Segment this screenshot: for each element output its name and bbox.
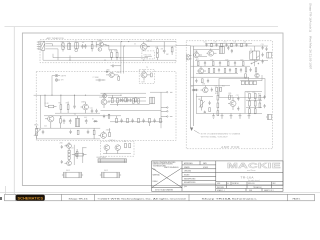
earphone jack J2 pin 2 <box>55 79 60 82</box>
title block small texts <box>153 162 276 192</box>
jack labels <box>61 74 66 81</box>
capacitor C32 <box>95 109 97 113</box>
transistor TR1 <box>96 42 106 52</box>
wire bias right 2 <box>82 147 84 163</box>
svg-text:0.05: 0.05 <box>84 117 87 119</box>
svg-text:2SB: 2SB <box>195 51 198 53</box>
wire AVC bus <box>53 57 148 59</box>
svg-text:0.01: 0.01 <box>224 42 227 44</box>
svg-text:2SB: 2SB <box>202 84 205 86</box>
resistor column R24 <box>217 100 219 108</box>
resistor R41 <box>60 95 62 113</box>
resistor R56 <box>255 68 257 72</box>
svg-text:0.02: 0.02 <box>44 125 47 127</box>
wire row3b <box>101 92 147 94</box>
capacitor C43 <box>250 68 252 72</box>
ferrite rod antenna <box>98 159 127 163</box>
svg-text:D1: D1 <box>92 119 94 121</box>
wire row5 <box>110 121 163 123</box>
svg-text:2SB75: 2SB75 <box>81 102 86 104</box>
driver transformer dashed sub-box <box>139 70 154 84</box>
top row resistor R13 <box>211 43 213 47</box>
wire y52 <box>199 56 207 58</box>
resistor R44 <box>111 95 113 103</box>
wire takeoff top <box>150 91 166 93</box>
svg-text:4.7K: 4.7K <box>214 42 217 44</box>
svg-text:T5: T5 <box>250 49 252 51</box>
wire amp x196 <box>195 94 197 114</box>
oscillator coil dashed sub-box <box>142 51 155 59</box>
wire bias stub <box>83 147 87 149</box>
node dots on buses <box>69 41 144 61</box>
resistor R26 <box>229 95 231 99</box>
top row capacitor C12 <box>215 43 217 45</box>
wire col link 2 <box>246 107 262 109</box>
resistor R46 <box>132 99 134 104</box>
resistor R3 <box>156 47 158 53</box>
svg-text:R17: R17 <box>196 59 199 61</box>
variable capacitor C1 <box>61 42 65 52</box>
resistor R63 <box>135 98 137 102</box>
wire bias right <box>73 145 75 165</box>
capacitor C50 <box>120 98 122 102</box>
wire drop <box>69 56 71 61</box>
left box cross <box>152 168 182 188</box>
node dot <box>44 95 121 96</box>
resistor R47 <box>138 99 140 104</box>
svg-text:R23: R23 <box>215 93 218 95</box>
capacitor C36 <box>126 98 128 102</box>
wire strip feed <box>248 77 250 81</box>
bias pot VR2 <box>199 97 205 111</box>
wire bus E <box>36 127 100 129</box>
capacitor C56 <box>264 104 266 108</box>
resistor bank col4 R32 <box>254 106 256 114</box>
wire in output box <box>103 153 131 155</box>
speaker jack J4 <box>266 115 272 120</box>
audio transistor TR8 <box>99 131 107 138</box>
margin note text <box>309 3 313 69</box>
jack block right <box>267 52 272 58</box>
IF amp transistor TR16 <box>81 102 89 114</box>
svg-text:UM-3: UM-3 <box>104 170 108 172</box>
svg-text:47K: 47K <box>161 49 164 51</box>
svg-text:FILE: FILE <box>249 190 252 192</box>
wire J1 lead 4 <box>45 49 58 60</box>
wire takeoff bus <box>160 92 162 128</box>
capacitor C19 <box>262 46 264 50</box>
wire interstage <box>105 45 117 50</box>
capacitor C21 <box>211 88 213 92</box>
wire y49 <box>193 49 219 51</box>
connector fork F3 <box>161 116 172 117</box>
output transformer T5 <box>250 51 260 60</box>
svg-text:2SB: 2SB <box>60 143 63 145</box>
svg-text:C21: C21 <box>215 85 218 87</box>
mid row capacitor C17 <box>219 61 221 66</box>
wire left column <box>40 95 42 128</box>
amp top bus 2 <box>205 42 252 44</box>
top row capacitor C11 <box>205 43 207 45</box>
resistor R53 <box>171 46 173 55</box>
ground G3 <box>230 113 233 118</box>
interstage transformer T4 <box>75 116 79 127</box>
svg-text:R11: R11 <box>66 145 69 147</box>
capacitor C23 <box>237 107 239 111</box>
svg-text:Sharp TR-16: Sharp TR-16 <box>69 197 89 200</box>
svg-text:R7: R7 <box>66 103 68 105</box>
wire transformer bottom <box>254 60 256 67</box>
svg-text:REV: REV <box>273 183 276 185</box>
svg-text:T3: T3 <box>146 67 148 69</box>
svg-text:T4: T4 <box>74 114 76 116</box>
svg-text:SIZE: SIZE <box>217 183 220 185</box>
coupling capacitor C6 between sections <box>111 65 121 68</box>
svg-text:.XX ±: .XX ± <box>153 169 157 171</box>
wire tuner out to amp box <box>176 45 191 47</box>
svg-text:10K: 10K <box>234 42 237 44</box>
resistor R48 <box>116 116 118 123</box>
capacitor C51 <box>130 98 132 102</box>
resistor bank col5 R34 <box>259 100 261 108</box>
capacitor C31 <box>91 109 93 113</box>
svg-text:1N60: 1N60 <box>106 70 110 72</box>
resistor R6 beside TR5 <box>118 75 120 80</box>
capacitor C28 <box>240 68 242 72</box>
svg-text:R33: R33 <box>258 93 261 95</box>
capacitor C3 <box>84 44 87 49</box>
resistor bank col4 R30 <box>254 94 256 99</box>
wire J1 lead 3 <box>45 44 52 46</box>
svg-text:T1: T1 <box>67 42 69 44</box>
svg-text:CV1: CV1 <box>61 41 64 43</box>
IF-audio section dashed box <box>36 72 176 141</box>
svg-text:4/16/08: 4/16/08 <box>203 167 208 169</box>
wire row3 <box>108 96 146 98</box>
switch S1 <box>251 61 259 64</box>
svg-text:C5: C5 <box>134 44 136 46</box>
wire audio bus D <box>34 94 121 96</box>
resistor R62 <box>125 98 127 102</box>
wire row4 <box>110 104 150 106</box>
capacitor C44 <box>262 59 264 63</box>
svg-text:VR2: VR2 <box>198 99 201 101</box>
capacitor C53 <box>61 145 63 149</box>
svg-text:D4: D4 <box>191 86 193 88</box>
resistor column R25 <box>217 108 219 116</box>
capacitor C55 <box>264 95 266 99</box>
svg-text:1K: 1K <box>119 58 121 60</box>
top row capacitor C13 <box>225 43 227 45</box>
diode pair D4 <box>192 89 199 91</box>
svg-text:CHECKED: CHECKED <box>184 171 191 173</box>
svg-text:ANT. TUNER PCB: ANT. TUNER PCB <box>47 37 65 40</box>
svg-text:R9: R9 <box>124 141 126 143</box>
svg-text:TR-16A: TR-16A <box>241 176 255 180</box>
capacitor C27 <box>229 68 231 72</box>
connector fork F0 <box>167 92 173 93</box>
mid row resistor R17 <box>197 62 199 66</box>
top row resistor R15 <box>231 43 233 47</box>
capacitor C49 <box>42 130 44 134</box>
resistor R45 <box>117 98 119 106</box>
capacitor C26 <box>218 68 220 72</box>
driver transistor TR19 <box>197 66 206 74</box>
resistor bank col3 R27 <box>249 94 251 99</box>
capacitor C30 <box>73 95 75 109</box>
capacitor C37 <box>120 118 122 122</box>
svg-text:Sharp TR16A Schematics: Sharp TR16A Schematics <box>202 197 259 200</box>
svg-text:and Dean: and Dean <box>247 170 256 172</box>
resistor R22 <box>220 87 222 91</box>
ground G5 <box>248 113 251 118</box>
coil L2 <box>150 97 155 104</box>
bias transistor TR12 <box>65 159 72 165</box>
note text <box>201 133 241 139</box>
svg-text:2SA101: 2SA101 <box>146 39 152 42</box>
antenna connector J1 <box>37 41 45 50</box>
ground G4 <box>239 113 242 118</box>
svg-text:FINISH: FINISH <box>153 181 158 183</box>
resistor R57 <box>93 128 95 139</box>
svg-text:R30: R30 <box>253 92 256 94</box>
capacitor C25 <box>231 49 233 53</box>
top row capacitor C15 <box>245 43 247 45</box>
svg-text:R5 2K: R5 2K <box>45 103 49 105</box>
svg-text:2SB75: 2SB75 <box>99 97 104 99</box>
vertical supply bus pair <box>190 46 192 129</box>
ground G2 <box>221 113 224 118</box>
svg-text:WITH NO SIGNAL. VOM 20K/V: WITH NO SIGNAL. VOM 20K/V <box>201 135 228 138</box>
amp input connector J3 <box>186 54 191 60</box>
AF transistor TR17 <box>101 95 110 108</box>
capacitor C34 <box>207 79 209 83</box>
sheet border frame <box>22 33 283 186</box>
wire transformer top <box>254 46 256 51</box>
svg-text:C11: C11 <box>90 108 93 110</box>
resistor bank col4 R31 <box>254 99 256 107</box>
resistor R51 <box>149 118 151 126</box>
resistor R4 <box>156 54 158 61</box>
capacitor C46 <box>87 130 89 134</box>
amp mid bus <box>195 60 268 62</box>
wire y70 <box>196 73 238 75</box>
svg-text:MACKIE: MACKIE <box>227 161 281 170</box>
amp wires horizontal mid <box>191 76 249 78</box>
svg-text:C22: C22 <box>236 95 239 97</box>
resistor R38 <box>235 68 237 72</box>
svg-text:R22: R22 <box>222 85 225 87</box>
svg-text:0.01: 0.01 <box>204 42 207 44</box>
mid row capacitor C16 <box>204 61 206 66</box>
diode D7 <box>68 157 70 160</box>
volume control VR1 <box>34 126 41 139</box>
component value labels <box>34 39 264 172</box>
scan page left edge <box>13 27 15 195</box>
output transistor TR10 <box>115 145 121 154</box>
svg-text:C19: C19 <box>261 44 264 46</box>
svg-text:SHEET 1 OF 1: SHEET 1 OF 1 <box>264 190 274 192</box>
tuner section dashed box <box>40 40 176 63</box>
diode D5 <box>68 148 70 153</box>
resistor R9 in output box <box>125 143 127 147</box>
wire row4b <box>108 100 146 102</box>
bias transistor TR11 <box>65 142 72 148</box>
resistor R61 <box>91 42 93 52</box>
resistor R21 <box>216 87 218 91</box>
footer logo plate <box>16 195 45 201</box>
svg-text:T2: T2 <box>75 41 77 43</box>
converter coil T2 <box>75 43 78 52</box>
svg-text:Wed Mar 26 21:09 1997: Wed Mar 26 21:09 1997 <box>309 36 313 69</box>
capacitor C40 <box>153 118 155 122</box>
wire feedback loop <box>219 79 265 98</box>
svg-text:R20: R20 <box>241 59 244 61</box>
resistor R37 <box>224 68 226 72</box>
wire top bus A <box>45 41 176 43</box>
diode D3 <box>93 120 98 122</box>
svg-text:R1: R1 <box>109 51 111 53</box>
resistor R11 <box>76 149 78 159</box>
approvals column rows <box>182 164 216 166</box>
svg-text:AMP POD: AMP POD <box>221 145 240 149</box>
resistor column R23 <box>217 91 219 100</box>
scan page top edge <box>5 26 279 28</box>
svg-text:2SB: 2SB <box>230 95 233 97</box>
IF transistor TR18 <box>207 49 217 57</box>
wire row <box>55 112 100 114</box>
note arrow <box>194 130 200 133</box>
IF transformer T6 <box>219 47 224 54</box>
capacitor C41 <box>209 101 211 105</box>
wire stub <box>52 54 54 58</box>
svg-text:220: 220 <box>244 42 247 44</box>
svg-text:R27: R27 <box>247 92 250 94</box>
vertical feed wires from tuner <box>120 42 122 74</box>
resistor R39 <box>202 79 204 83</box>
logo column lines <box>216 171 283 173</box>
mid row resistor R20 <box>242 62 244 66</box>
connector fork F1 <box>161 107 168 108</box>
capacitor C8 <box>63 119 66 124</box>
svg-text:R8: R8 <box>60 117 62 119</box>
svg-text:R3: R3 <box>156 47 158 49</box>
wire row2 <box>44 115 121 117</box>
svg-text:R19: R19 <box>226 59 229 61</box>
svg-text:©2007 WTB Technologies Inc. A: ©2007 WTB Technologies Inc. All rights r… <box>98 197 187 200</box>
svg-text:VR 5K: VR 5K <box>34 125 38 127</box>
volume cap C7 <box>96 79 106 82</box>
top row capacitor C14 <box>235 43 237 45</box>
amp transistor TR13 <box>194 51 202 58</box>
resistor bank col3 R29 <box>249 106 251 114</box>
capacitor C22 <box>237 97 239 101</box>
scan page bottom rule <box>0 191 320 193</box>
capacitor C52 <box>103 115 105 119</box>
svg-text:C7 10MF: C7 10MF <box>93 77 99 79</box>
wire row6 <box>101 110 162 112</box>
capacitor C38 <box>131 118 133 122</box>
wire jack to bus <box>52 76 55 96</box>
earphone jack J2 pin 1 <box>55 74 60 77</box>
transistor TR6 <box>141 70 151 81</box>
svg-text:C13: C13 <box>71 148 74 150</box>
svg-text:ISSUED: ISSUED <box>184 175 189 177</box>
wire col link 1 <box>246 99 262 101</box>
svg-text:NOTE: VOLTAGES MEASURED TO CHA: NOTE: VOLTAGES MEASURED TO CHASSIS <box>201 133 241 136</box>
resistor R7 in sub-box <box>151 73 153 77</box>
svg-text:2SB77: 2SB77 <box>116 72 121 74</box>
top node dots <box>206 43 247 47</box>
resistor R10 in output box <box>129 143 131 147</box>
detector stage transistor TR5 <box>106 72 118 77</box>
scan corner artifact <box>0 197 2 200</box>
capacitor C39 <box>142 118 144 122</box>
resistor R2 <box>116 50 118 60</box>
AF transistor TR21 <box>103 94 107 98</box>
resistor bank col3 R28 <box>249 99 251 107</box>
resistor bank col5 R33 <box>259 95 261 100</box>
IF transformer T1 <box>68 42 71 50</box>
ground G1 <box>212 113 215 118</box>
driver transistor TR20 <box>255 73 259 77</box>
connector fork F2 <box>161 111 168 112</box>
diode D6 <box>68 153 70 156</box>
capacitor C45 <box>265 47 267 51</box>
audio driver transistor TR7 <box>45 116 54 128</box>
svg-text:R18: R18 <box>211 59 214 61</box>
resistor R1 <box>111 50 113 60</box>
resistor R36 <box>213 68 215 72</box>
wire bottom return bus <box>43 59 176 61</box>
svg-text:10P: 10P <box>82 42 85 44</box>
svg-text:REF DWG: REF DWG <box>217 187 225 189</box>
capacitor C2 <box>81 44 84 49</box>
svg-text:2SB77: 2SB77 <box>106 130 111 132</box>
wire bus F <box>36 138 100 140</box>
resistor R58 <box>77 130 79 134</box>
resistor R55 <box>245 68 247 72</box>
top row resistor R16 <box>241 43 243 47</box>
capacitor C42 <box>204 111 206 113</box>
svg-text:UNLESS OTHERWISE SPECIFIED: UNLESS OTHERWISE SPECIFIED <box>153 162 176 164</box>
capacitor C4 <box>163 42 166 54</box>
svg-text:SPK: SPK <box>61 80 64 82</box>
battery cell BT1 <box>62 172 83 178</box>
resistor R8 <box>109 128 111 136</box>
amp bottom bus <box>196 112 262 114</box>
svg-text:30P: 30P <box>166 54 169 56</box>
amp mid bus 2 <box>191 65 250 67</box>
capacitor C47 <box>69 130 71 134</box>
svg-text:DET: DET <box>142 82 145 84</box>
output transistor TR9 <box>104 145 110 154</box>
wire bus B <box>45 45 176 47</box>
resistor R50 <box>138 118 140 122</box>
resistor R54 <box>209 108 211 112</box>
mid row resistor R18 <box>212 62 214 66</box>
mid row capacitor C18 <box>234 61 236 66</box>
resistor R59 <box>245 74 247 78</box>
resistor R42 <box>67 102 69 113</box>
svg-text:DWG. NO.: DWG. NO. <box>248 183 255 185</box>
electrolytic capacitor C48 <box>72 153 87 156</box>
svg-text:R6: R6 <box>59 103 61 105</box>
transistor TR2 oscillator <box>141 42 150 51</box>
driver transistor TR15 <box>228 97 236 110</box>
svg-text:R26: R26 <box>229 93 232 95</box>
svg-text:Sharp TR-16A (sch1): Sharp TR-16A (sch1) <box>309 3 313 32</box>
